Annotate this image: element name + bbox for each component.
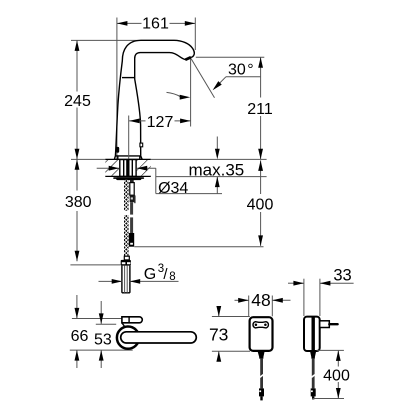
dim 245 [64, 40, 91, 159]
svg-text:161: 161 [142, 16, 169, 33]
cable side strain relief [310, 351, 316, 359]
deck bottom line [105, 175, 151, 177]
cable connector front [259, 388, 264, 396]
ext lines 48 [248, 296, 250, 317]
dim 66 [71, 295, 89, 368]
dim 161 [117, 16, 195, 33]
svg-text:53: 53 [94, 332, 112, 349]
deck hatch left [105, 160, 119, 176]
hose ferrule [124, 256, 129, 260]
handle top view [121, 332, 197, 343]
threaded stud center [126, 159, 129, 176]
cable connector dark part [130, 196, 135, 203]
lever tab top view [122, 317, 142, 323]
dim 33 [288, 266, 354, 285]
svg-text:max.35: max.35 [189, 161, 245, 180]
svg-text:33: 33 [333, 266, 351, 284]
base plate tick left [117, 156, 119, 159]
sensor cable upper [130, 202, 133, 214]
connection tube [122, 266, 130, 293]
body circle top view [117, 327, 139, 349]
30deg label underline to 211 dim line [226, 76, 261, 78]
cable end plug [129, 233, 134, 247]
euro socket face [253, 322, 268, 328]
deck bottom extension under max.35 [156, 176, 267, 178]
dim 127 [129, 114, 191, 131]
svg-text:66: 66 [71, 328, 89, 345]
dim 30 degrees [167, 59, 261, 100]
svg-text:380: 380 [65, 194, 92, 211]
centerline of faucet [128, 116, 130, 176]
cable connector white housing [130, 183, 134, 196]
ext lines 73 [212, 316, 250, 318]
sensor cable lower [130, 217, 133, 233]
angle arrow on vertical line [167, 92, 182, 97]
spout joint tick [122, 77, 135, 79]
ext line 127 right from spout tip [190, 57, 192, 126]
tab to circle diagonal [122, 323, 125, 327]
deck hatch right [137, 160, 151, 176]
cable stub at flange [130, 180, 134, 183]
cable front strain relief [258, 351, 265, 359]
svg-text:30: 30 [228, 62, 246, 79]
svg-text:Ø34: Ø34 [158, 180, 188, 197]
braided hose lower [124, 212, 129, 257]
svg-text:400: 400 [323, 368, 350, 385]
hole edge right [135, 159, 137, 176]
ext line 53 top [96, 323, 116, 325]
ext line 66 top [72, 318, 122, 320]
deck top line [71, 158, 105, 160]
hose nut G3/8 [121, 260, 131, 266]
spout outlet face (30 deg cut) [185, 57, 191, 59]
svg-text:°: ° [247, 62, 253, 79]
dim 73 [209, 306, 228, 362]
tab inner line [128, 317, 130, 323]
small box on right edge [140, 143, 143, 147]
30deg inclined line from spout tip [191, 59, 215, 98]
dim 211 [247, 57, 273, 159]
braided hose upper [124, 177, 129, 215]
locknut flange [113, 177, 144, 179]
dim 400 right view [312, 350, 350, 398]
ext line 245 top [71, 39, 141, 41]
faucet body outline [114, 40, 194, 159]
power supply body front [250, 317, 273, 351]
dim 400 left view [134, 160, 273, 246]
shank wall lines [123, 159, 125, 176]
svg-text:8: 8 [169, 271, 175, 283]
ext line 211 top from spout tip [196, 56, 264, 58]
svg-text:400: 400 [247, 197, 274, 214]
power supply body side [304, 317, 320, 351]
svg-text:G: G [144, 266, 156, 283]
ext lines 33 [303, 279, 305, 316]
dim 48 [235, 290, 291, 310]
svg-text:211: 211 [247, 101, 273, 118]
30deg leader with arrow [214, 77, 226, 89]
ext line 161 left / full height [116, 18, 118, 160]
cable connector side [311, 388, 316, 396]
plug pin [329, 323, 337, 325]
ext line 161 right [194, 18, 196, 51]
plug base side [320, 321, 330, 328]
svg-text:73: 73 [209, 325, 228, 345]
sensor nub on left edge [116, 147, 119, 153]
base joint line [115, 155, 140, 157]
svg-text:48: 48 [251, 290, 270, 310]
dim 53 [94, 301, 112, 368]
dim diameter 34 [97, 166, 222, 197]
dim G 3/8 [99, 263, 179, 284]
svg-text:127: 127 [147, 114, 174, 131]
dark stripe side [312, 317, 315, 351]
base plate tick right [139, 156, 141, 159]
hole edge left [119, 159, 121, 176]
socket pin holes [255, 324, 258, 327]
dim 380 [65, 159, 121, 265]
svg-text:245: 245 [64, 93, 91, 110]
connector side tab [134, 195, 136, 203]
ext line bottom shared [70, 349, 133, 351]
dim max.35 [189, 137, 245, 194]
